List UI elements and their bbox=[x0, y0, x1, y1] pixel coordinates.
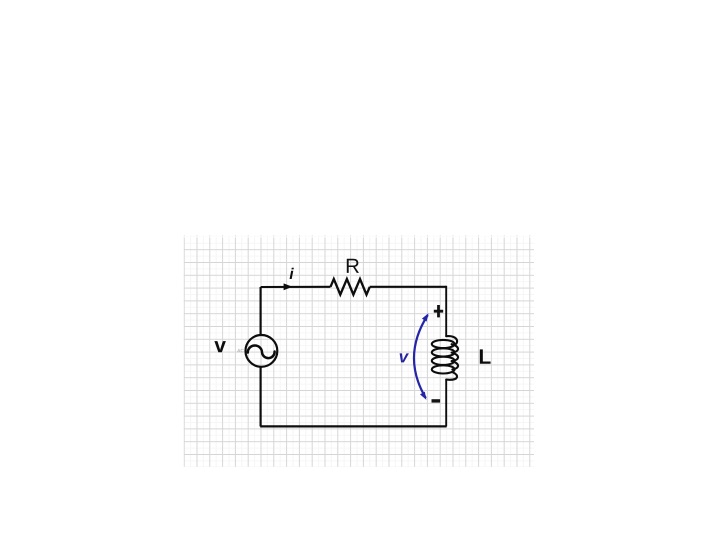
wire top left bbox=[261, 286, 331, 288]
label L bbox=[480, 349, 491, 363]
wire right upper bbox=[445, 286, 447, 337]
label v (blue) bbox=[400, 353, 409, 362]
current arrowhead bbox=[284, 283, 293, 290]
wire top right bbox=[370, 286, 446, 288]
label R bbox=[347, 259, 359, 273]
wire right lower bbox=[445, 380, 447, 427]
AC tiny label bbox=[237, 349, 240, 352]
inductor L coil connectors bbox=[446, 336, 457, 346]
label plus bbox=[434, 305, 443, 317]
blue voltage arc bbox=[414, 315, 428, 398]
blue arrowhead top bbox=[422, 313, 429, 321]
label v (source) bbox=[214, 341, 226, 352]
wire bottom bbox=[260, 425, 446, 427]
inductor L coil loops bbox=[432, 340, 455, 348]
resistor R bbox=[331, 279, 370, 295]
sine wave inside source bbox=[248, 346, 275, 359]
label i bbox=[290, 268, 294, 279]
blue arrowhead bottom bbox=[420, 392, 426, 400]
voltage source circle bbox=[246, 335, 278, 367]
grid paper background bbox=[184, 235, 534, 466]
wire left lower bbox=[260, 367, 262, 426]
label minus bbox=[432, 399, 441, 402]
wire left upper bbox=[260, 287, 262, 335]
